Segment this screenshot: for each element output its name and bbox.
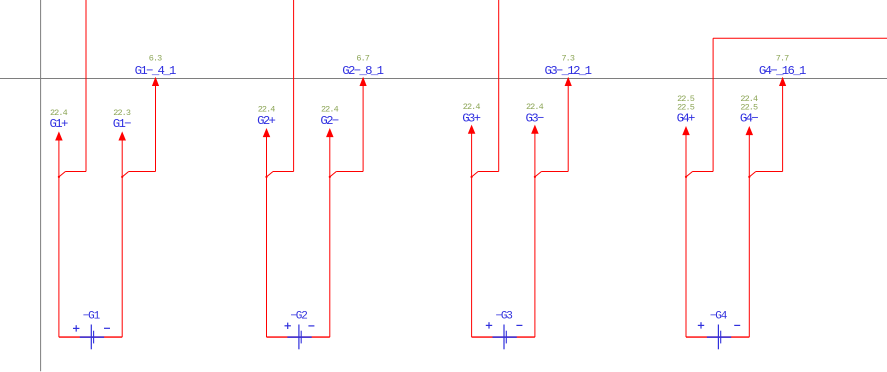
wire G3+ branch diagonal: [471, 172, 479, 178]
battery minus mark G4: [734, 324, 740, 326]
battery plus mark G3: [486, 322, 492, 328]
wire G2+ riser vertical: [293, 0, 295, 172]
wire G4- branch diagonal: [748, 172, 756, 178]
wire G1+ branch diagonal: [58, 172, 66, 178]
svg-text:6.7: 6.7: [356, 53, 369, 63]
svg-text:G3+: G3+: [462, 111, 480, 125]
bus line (horizontal net): [0, 78, 887, 80]
battery plus mark G2: [285, 323, 291, 329]
battery G2: [287, 325, 311, 350]
wire G3- branch diagonal: [534, 172, 542, 178]
net arrow G2-_8_1: [360, 77, 367, 172]
svg-text:G1−: G1−: [113, 117, 131, 131]
arrow G1+: [55, 131, 63, 337]
wire G2- branch diagonal: [329, 172, 337, 178]
svg-text:22.4: 22.4: [463, 102, 481, 112]
arrow G2+: [263, 128, 271, 337]
wire G4+ top horizontal to edge: [713, 37, 887, 39]
wire G1+ riser vertical: [85, 0, 87, 172]
svg-text:−G1: −G1: [83, 310, 101, 322]
svg-text:22.5: 22.5: [677, 102, 695, 112]
battery minus mark G3: [516, 324, 522, 326]
svg-text:G4−_16_1: G4−_16_1: [759, 64, 806, 78]
svg-text:G4+: G4+: [677, 112, 695, 126]
arrow G3+: [468, 125, 476, 338]
svg-text:G4−: G4−: [740, 112, 758, 126]
arrow G2−: [326, 128, 334, 337]
svg-text:G2+: G2+: [257, 114, 275, 128]
wire G4+ branch diagonal: [685, 172, 693, 178]
wire G4+ branch horizontal: [693, 171, 714, 173]
arrow G4−: [746, 126, 754, 337]
arrow G3−: [531, 125, 539, 338]
wire G1+ branch horizontal: [65, 171, 86, 173]
wire G2- branch horizontal: [336, 171, 363, 173]
arrow G4+: [682, 126, 690, 337]
wire G3- branch horizontal: [541, 171, 568, 173]
wire battery bottom G2: [267, 336, 330, 338]
battery plus mark G1: [73, 325, 79, 331]
svg-text:G3−: G3−: [525, 111, 543, 125]
battery G3: [493, 325, 517, 350]
wire battery bottom G3: [472, 336, 535, 338]
battery G1: [80, 325, 104, 350]
svg-text:22.5: 22.5: [740, 102, 758, 112]
svg-text:7.3: 7.3: [561, 53, 574, 63]
svg-text:6.3: 6.3: [149, 53, 162, 63]
svg-text:G2−_8_1: G2−_8_1: [342, 64, 383, 78]
svg-text:22.3: 22.3: [113, 108, 131, 118]
net arrow G3-_12_1: [565, 77, 572, 172]
svg-text:22.4: 22.4: [50, 108, 68, 118]
svg-text:22.4: 22.4: [321, 105, 339, 115]
svg-text:G3−_12_1: G3−_12_1: [544, 64, 591, 78]
wire G1- branch horizontal: [129, 171, 156, 173]
svg-text:−G2: −G2: [290, 310, 307, 322]
wire G1- branch diagonal: [121, 172, 129, 178]
svg-text:G2−: G2−: [320, 114, 338, 128]
svg-text:22.4: 22.4: [258, 105, 276, 115]
net arrow G1-_4_1: [152, 77, 159, 172]
wire G2+ branch diagonal: [265, 172, 273, 178]
svg-text:G1+: G1+: [49, 117, 67, 131]
wire G4- branch horizontal: [756, 171, 783, 173]
arrow G1−: [118, 131, 126, 337]
battery minus mark G1: [104, 327, 110, 329]
wire G4+ riser vertical: [712, 38, 714, 171]
svg-text:22.4: 22.4: [526, 102, 544, 112]
wire G2+ branch horizontal: [273, 171, 294, 173]
battery minus mark G2: [308, 325, 314, 327]
svg-text:G1−_4_1: G1−_4_1: [135, 64, 176, 78]
wire battery bottom G1: [59, 336, 122, 338]
net arrow G4-_16_1: [779, 77, 786, 172]
wire battery bottom G4: [686, 336, 749, 338]
battery G4: [707, 325, 731, 350]
sheet frame vertical line: [40, 0, 42, 371]
svg-text:7.7: 7.7: [776, 53, 789, 63]
svg-text:−G3: −G3: [495, 310, 512, 322]
svg-text:−G4: −G4: [710, 310, 728, 322]
wire G3+ riser vertical: [498, 0, 500, 172]
battery plus mark G4: [698, 322, 704, 328]
wire G3+ branch horizontal: [478, 171, 499, 173]
